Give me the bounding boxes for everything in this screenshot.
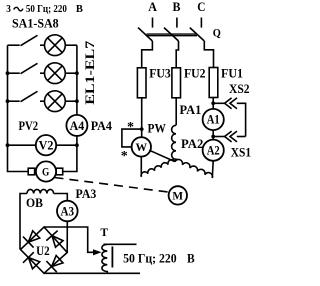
- svg-text:*: *: [127, 120, 134, 135]
- diode top-left: [23, 231, 40, 248]
- wire A2 down to winding: [211, 161, 214, 178]
- svg-text:50 Гц; 220: 50 Гц; 220: [26, 4, 67, 15]
- junction row2 right: [75, 71, 79, 75]
- voltmeter PV2: [8, 135, 77, 155]
- svg-text:A3: A3: [61, 204, 75, 218]
- svg-text:A4: A4: [70, 119, 85, 133]
- svg-text:FU3: FU3: [149, 67, 171, 81]
- svg-text:EL1-EL7: EL1-EL7: [82, 40, 97, 105]
- ammeter PA3: [57, 201, 78, 222]
- svg-text:C: C: [197, 0, 205, 14]
- wattmeter PW: [132, 137, 151, 156]
- svg-text:PA3: PA3: [76, 187, 97, 201]
- node B: [173, 0, 181, 28]
- svg-text:B: B: [173, 0, 181, 14]
- stator winding phase B: [172, 98, 177, 162]
- label 3~ 50Hz 220V supply: [6, 4, 83, 15]
- ammeter PA2: [203, 140, 224, 161]
- svg-text:SA1-SA8: SA1-SA8: [12, 15, 59, 30]
- svg-text:XS2: XS2: [229, 82, 250, 96]
- svg-text:U2: U2: [36, 244, 50, 258]
- junction XS1: [211, 135, 215, 139]
- svg-text:FU2: FU2: [184, 67, 206, 81]
- wattmeter voltage loop: [122, 129, 142, 147]
- svg-text:A: A: [148, 0, 157, 14]
- junction row3 right: [75, 99, 79, 103]
- lamp EL row1: [45, 35, 77, 56]
- junction V2 right: [75, 143, 79, 147]
- autotransformer T: [44, 244, 140, 273]
- node C: [197, 0, 205, 28]
- connector XS1: [213, 131, 245, 142]
- svg-text:G: G: [42, 166, 49, 178]
- fuse FU1: [204, 41, 218, 98]
- wire left bus: [8, 45, 29, 171]
- lamp EL row3: [45, 91, 77, 112]
- ammeter PA4: [66, 115, 87, 136]
- connector XS2: [213, 98, 245, 137]
- junction V2 left: [6, 143, 10, 147]
- svg-text:PA1: PA1: [180, 103, 202, 117]
- wire A3 to bridge right corner: [66, 221, 68, 252]
- fuse FU3: [137, 41, 152, 98]
- svg-text:Q: Q: [213, 25, 221, 39]
- switch SA row1: [8, 35, 45, 45]
- svg-text:W: W: [136, 140, 148, 154]
- svg-text:3: 3: [6, 4, 11, 15]
- switch Q: [138, 28, 204, 41]
- label 50Hz 220V: [123, 251, 195, 265]
- svg-text:PV2: PV2: [19, 119, 39, 133]
- rectifier bridge U2: [21, 227, 68, 273]
- switch SA row3: [8, 91, 45, 101]
- diode bottom-right: [46, 256, 63, 273]
- diode top-right: [46, 231, 63, 248]
- svg-text:OB: OB: [26, 196, 43, 210]
- lamp EL row2: [45, 63, 77, 84]
- wire W down: [140, 157, 142, 177]
- wire A1 to A2: [212, 130, 214, 140]
- stator winding phase A: [141, 160, 175, 177]
- svg-text:PA2: PA2: [181, 137, 203, 151]
- junction PW: [140, 127, 144, 131]
- wire bridge top corner to T wiper: [44, 227, 94, 252]
- AC tilde symbol: [14, 7, 23, 11]
- wire right bus upper: [76, 45, 78, 115]
- svg-text:50 Гц; 220: 50 Гц; 220: [123, 251, 177, 265]
- ammeter PA1: [203, 109, 224, 130]
- wiper arrowhead: [93, 249, 102, 255]
- wire W voltage to star point: [149, 150, 175, 161]
- svg-text:FU1: FU1: [221, 67, 243, 81]
- shaft coupling G-M (dashed): [55, 178, 169, 193]
- generator G: [28, 161, 62, 181]
- svg-text:T: T: [100, 227, 108, 239]
- junction row3 left: [6, 99, 10, 103]
- node A: [148, 0, 157, 28]
- stator winding phase C: [175, 159, 213, 178]
- svg-text:В: В: [187, 251, 195, 265]
- svg-text:XS1: XS1: [231, 146, 251, 160]
- svg-text:A1: A1: [207, 113, 220, 127]
- junction row2 left: [6, 71, 10, 75]
- junction XS2: [211, 101, 215, 105]
- svg-text:A2: A2: [207, 143, 220, 157]
- fuse FU2: [172, 41, 181, 98]
- svg-text:PA4: PA4: [91, 119, 112, 133]
- svg-text:PW: PW: [148, 121, 167, 135]
- field winding OB: [20, 189, 67, 249]
- svg-text:V2: V2: [39, 139, 54, 153]
- wire FU3 to wattmeter: [141, 98, 143, 138]
- wire right bus lower: [63, 136, 77, 172]
- switch SA row2: [8, 63, 45, 73]
- svg-text:*: *: [121, 149, 128, 164]
- svg-text:M: M: [172, 188, 183, 202]
- wire FU1 to A1: [212, 98, 214, 109]
- motor M: [169, 186, 187, 204]
- diode bottom-left: [23, 252, 40, 269]
- svg-text:В: В: [76, 4, 83, 15]
